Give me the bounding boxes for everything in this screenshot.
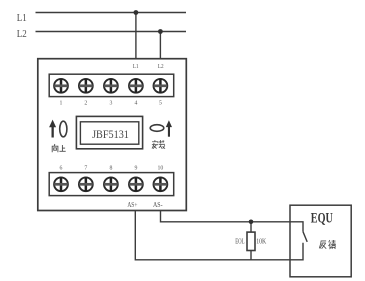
svg-text:L1: L1 — [133, 64, 139, 70]
svg-text:5: 5 — [159, 100, 162, 106]
svg-text:EQU: EQU — [311, 211, 333, 227]
svg-text:2: 2 — [84, 100, 87, 106]
svg-text:8: 8 — [109, 165, 112, 171]
svg-text:AS+: AS+ — [127, 201, 137, 209]
svg-text:EOL: EOL — [235, 237, 244, 245]
svg-text:3: 3 — [109, 100, 112, 106]
svg-text:L2: L2 — [17, 29, 27, 40]
svg-text:6: 6 — [60, 165, 63, 171]
svg-text:10: 10 — [158, 165, 164, 171]
svg-text:4: 4 — [134, 100, 137, 106]
svg-text:1: 1 — [60, 100, 63, 106]
svg-text:L1: L1 — [17, 13, 27, 24]
svg-text:7: 7 — [84, 165, 87, 171]
svg-text:9: 9 — [134, 165, 137, 171]
svg-text:JBF5131: JBF5131 — [92, 127, 129, 141]
svg-text:AS-: AS- — [153, 201, 163, 209]
svg-text:10K: 10K — [256, 237, 267, 245]
svg-text:L2: L2 — [158, 64, 164, 70]
